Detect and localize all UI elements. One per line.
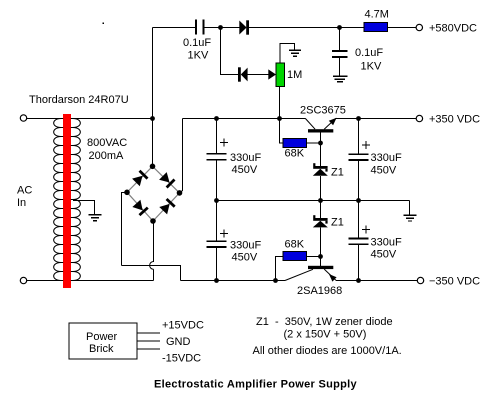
capacitor C2 330uF bottom-left [216,201,218,242]
svg-text:330uF: 330uF [230,240,261,252]
svg-text:+350 VDC: +350 VDC [429,114,480,126]
node junction mid left [214,198,219,203]
wire cap to ground [339,57,341,76]
zener Z1 top [313,163,328,176]
node junction top B [337,25,342,30]
svg-text:68K: 68K [285,239,305,251]
wire to +580 terminal [388,27,417,29]
AC In terminal bottom [20,277,26,283]
svg-text:1M: 1M [287,69,302,81]
resistor 68K top [283,139,307,148]
node junction secondary top [150,116,155,121]
svg-text:Brick: Brick [89,343,114,355]
node junction 68K bottom [273,278,278,283]
wire pot bottom to rail [279,86,281,118]
node bridge right [177,190,183,196]
wire center tap [73,201,95,215]
svg-text:330uF: 330uF [371,237,402,249]
wire doubler row [221,28,239,75]
diode bridge bottom-right [159,198,176,215]
capacitor C1 330uF top-left [216,119,218,154]
wire 68K to base node [307,142,321,144]
svg-text:200mA: 200mA [89,150,125,162]
wire zener to mid rail [320,176,322,201]
wire emitter to +350 terminal [336,118,416,120]
wire bridge left drop [122,192,128,265]
svg-text:Z1: Z1 [331,167,344,179]
node +580VDC terminal [416,24,422,30]
wire base node to Q2 base [320,257,322,266]
diode bridge top-right [159,172,176,189]
wire base node down to zener [320,143,322,166]
svg-text:0.1uF: 0.1uF [183,37,211,49]
wire negative mid [122,266,181,281]
wire cap 0.1uF right top [339,28,341,52]
node junction mid right [356,198,361,203]
node bridge left [124,190,130,196]
svg-text:AC: AC [17,185,32,197]
wire -350 rail right [336,280,417,282]
svg-text:All other diodes are 1000V/1A.: All other diodes are 1000V/1A. [253,345,402,357]
svg-text:1KV: 1KV [188,50,209,62]
pot wiper arrow [268,69,276,79]
node junction cap left bottom [214,278,219,283]
wire rail to 68K top [280,119,284,144]
capacitor C3 330uF top-right [358,119,360,155]
svg-text:0.1uF: 0.1uF [355,47,383,59]
svg-text:2SC3675: 2SC3675 [300,105,346,117]
node junction base bottom [318,254,323,259]
wire secondary bottom [73,280,154,282]
diode D1 top rail [239,20,249,34]
wire -350 rail left [181,280,286,282]
wire brick +15 stub [137,332,160,334]
svg-text:In: In [17,197,26,209]
svg-text:(2 x 150V + 50V): (2 x 150V + 50V) [284,329,367,341]
wire brick -15 stub [137,348,160,350]
wire 68K bottom to base node [307,256,321,258]
ground pot top [289,50,301,56]
resistor 4.7M [364,23,388,32]
svg-text:330uF: 330uF [230,152,261,164]
diode D2 [238,67,248,81]
node +350 VDC terminal [416,115,422,121]
zener Z1 bottom [313,215,328,227]
svg-text:Power: Power [86,331,118,343]
wire to pot wiper [248,74,269,76]
wire brick gnd stub [137,340,160,342]
svg-text:1KV: 1KV [361,61,382,73]
diode bridge bottom-left [132,200,148,217]
svg-text:Thordarson 24R07U: Thordarson 24R07U [29,94,129,106]
ground 0.1uF right [333,76,348,82]
svg-text:Z1: Z1 [331,217,344,229]
transistor Q2 2SA1968 [285,266,337,282]
capacitor 0.1uF top [196,20,204,35]
AC In terminal top [20,115,26,121]
svg-text:330uF: 330uF [371,152,402,164]
node bridge bottom [150,218,156,224]
wire mid rail to zener Z1 bottom [320,201,322,219]
node -350 VDC terminal [417,277,423,283]
svg-text:4.7M: 4.7M [365,9,389,21]
svg-text:-15VDC: -15VDC [162,353,201,365]
node junction cap right bottom [356,278,361,283]
diode bridge top-left [132,170,149,187]
svg-text:+580VDC: +580VDC [429,23,477,35]
transformer secondary winding [71,119,81,281]
svg-text:+15VDC: +15VDC [162,320,204,332]
stray dot artifact [103,23,105,25]
svg-text:2SA1968: 2SA1968 [297,285,342,297]
svg-text:450V: 450V [371,249,397,261]
wire top rail mid [204,27,240,29]
node junction cap left top [214,116,219,121]
svg-text:450V: 450V [371,165,397,177]
wire zener to base node bottom [320,227,322,256]
wire bridge bottom drop with hop [150,221,154,281]
svg-text:Z1 - 350V, 1W zener diode: Z1 - 350V, 1W zener diode [256,316,393,328]
potentiometer 1M [276,63,285,86]
wire top rail right [249,27,364,29]
node junction cap right top [356,116,361,121]
wire bridge top riser [152,119,154,167]
wire pot top to ground [280,44,295,64]
svg-text:800VAC: 800VAC [87,137,127,149]
wire top rail left [153,27,197,29]
ground mid rail [404,215,417,221]
wire +350 rail left [183,118,306,120]
power brick box [69,323,137,359]
wire bridge right riser [180,119,183,193]
capacitor C4 330uF bottom-right [358,201,360,239]
node junction top A [218,25,223,30]
node junction mid center [318,198,323,203]
resistor 68K bottom [283,252,307,261]
svg-text:−350 VDC: −350 VDC [429,276,480,288]
wire mid rail [217,200,410,202]
wire secondary top [73,118,153,120]
capacitor 0.1uF right [332,51,348,57]
wire riser to top rail [152,28,154,119]
wire 68K bottom left to rail [276,257,284,281]
svg-text:GND: GND [166,336,191,348]
svg-text:450V: 450V [232,252,258,264]
node junction pot/base top [277,116,282,121]
bridge rectifier frame [127,166,180,221]
node bridge top [150,164,156,170]
svg-text:Electrostatic Amplifier Power: Electrostatic Amplifier Power Supply [154,379,358,391]
node junction base top [318,141,323,146]
svg-text:68K: 68K [285,148,305,160]
transformer core [63,114,71,288]
wire primary bottom [27,280,61,282]
svg-text:450V: 450V [232,164,258,176]
wire base node up to Q1 base [320,133,322,144]
wire mid rail to ground [409,201,411,216]
transformer primary winding [54,119,64,281]
wire primary top [27,118,61,120]
ground center tap [89,215,102,221]
